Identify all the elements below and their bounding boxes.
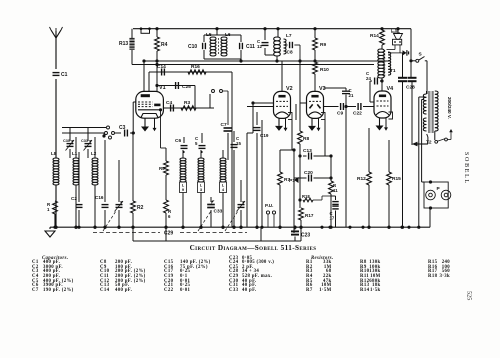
- svg-text:4: 4: [222, 187, 225, 192]
- svg-text:C3: C3: [119, 125, 126, 131]
- svg-text:V2: V2: [286, 86, 293, 92]
- svg-text:C13: C13: [303, 148, 312, 154]
- svg-text:R12: R12: [357, 176, 366, 182]
- svg-text:R15: R15: [392, 176, 401, 182]
- svg-text:L7: L7: [286, 33, 292, 39]
- svg-text:21: 21: [349, 93, 354, 98]
- svg-text:V4: V4: [387, 86, 394, 92]
- svg-text:C8: C8: [287, 50, 293, 56]
- svg-text:C30: C30: [63, 139, 70, 143]
- svg-text:R17: R17: [305, 213, 314, 218]
- svg-text:C6: C6: [175, 138, 181, 144]
- svg-text:C1: C1: [61, 72, 68, 78]
- svg-text:C33: C33: [214, 209, 223, 215]
- svg-text:R5: R5: [159, 166, 165, 171]
- svg-text:C29: C29: [164, 230, 173, 236]
- svg-text:C25: C25: [182, 84, 191, 90]
- svg-text:R18: R18: [302, 194, 310, 199]
- svg-text:V1: V1: [159, 85, 166, 91]
- svg-text:R4: R4: [161, 42, 168, 48]
- svg-text:C20: C20: [304, 170, 313, 176]
- svg-text:R13: R13: [119, 41, 128, 47]
- svg-text:C23: C23: [301, 233, 310, 239]
- svg-text:L5: L5: [206, 32, 212, 38]
- svg-text:C22: C22: [353, 111, 362, 117]
- svg-text:R3: R3: [184, 100, 190, 106]
- svg-text:C14: C14: [157, 64, 166, 70]
- svg-text:6: 6: [168, 214, 171, 219]
- svg-text:5: 5: [195, 141, 198, 146]
- svg-text:15: 15: [236, 141, 241, 146]
- svg-text:L2: L2: [91, 151, 97, 156]
- svg-text:9: 9: [182, 187, 185, 192]
- svg-text:L.S: L.S: [391, 28, 398, 33]
- svg-text:SOBELL: SOBELL: [463, 152, 469, 185]
- svg-text:17: 17: [330, 216, 335, 221]
- svg-text:C4: C4: [166, 100, 172, 106]
- svg-text:C11: C11: [246, 44, 255, 50]
- svg-text:L1: L1: [72, 151, 78, 156]
- svg-text:V3: V3: [319, 86, 326, 92]
- svg-text:P: P: [437, 186, 441, 192]
- svg-text:C28: C28: [406, 85, 415, 91]
- svg-text:C9: C9: [337, 111, 343, 117]
- svg-text:C19: C19: [260, 133, 269, 138]
- svg-text:T2: T2: [426, 140, 432, 146]
- svg-text:12: 12: [257, 44, 262, 49]
- svg-text:R10: R10: [320, 67, 329, 73]
- svg-text:3: 3: [200, 187, 203, 192]
- svg-text:L8: L8: [51, 151, 57, 156]
- svg-text:C31: C31: [81, 139, 88, 143]
- svg-text:R2: R2: [137, 205, 144, 211]
- svg-text:L6: L6: [225, 32, 231, 38]
- svg-text:1: 1: [47, 207, 50, 212]
- svg-text:C10: C10: [188, 44, 197, 50]
- svg-text:11: 11: [333, 188, 338, 193]
- svg-text:C2: C2: [71, 196, 77, 201]
- svg-text:C7: C7: [221, 122, 227, 128]
- svg-text:24: 24: [366, 76, 371, 81]
- svg-text:R9: R9: [320, 42, 326, 48]
- svg-text:T1: T1: [390, 68, 396, 74]
- svg-text:P.U.: P.U.: [265, 203, 273, 208]
- svg-text:525: 525: [466, 291, 473, 300]
- svg-text:S: S: [419, 52, 423, 58]
- svg-text:C16: C16: [95, 195, 104, 200]
- svg-text:R14: R14: [370, 33, 379, 39]
- svg-text:R16: R16: [191, 64, 200, 70]
- svg-text:R8: R8: [303, 136, 309, 142]
- svg-text:200/240 V.: 200/240 V.: [447, 97, 452, 119]
